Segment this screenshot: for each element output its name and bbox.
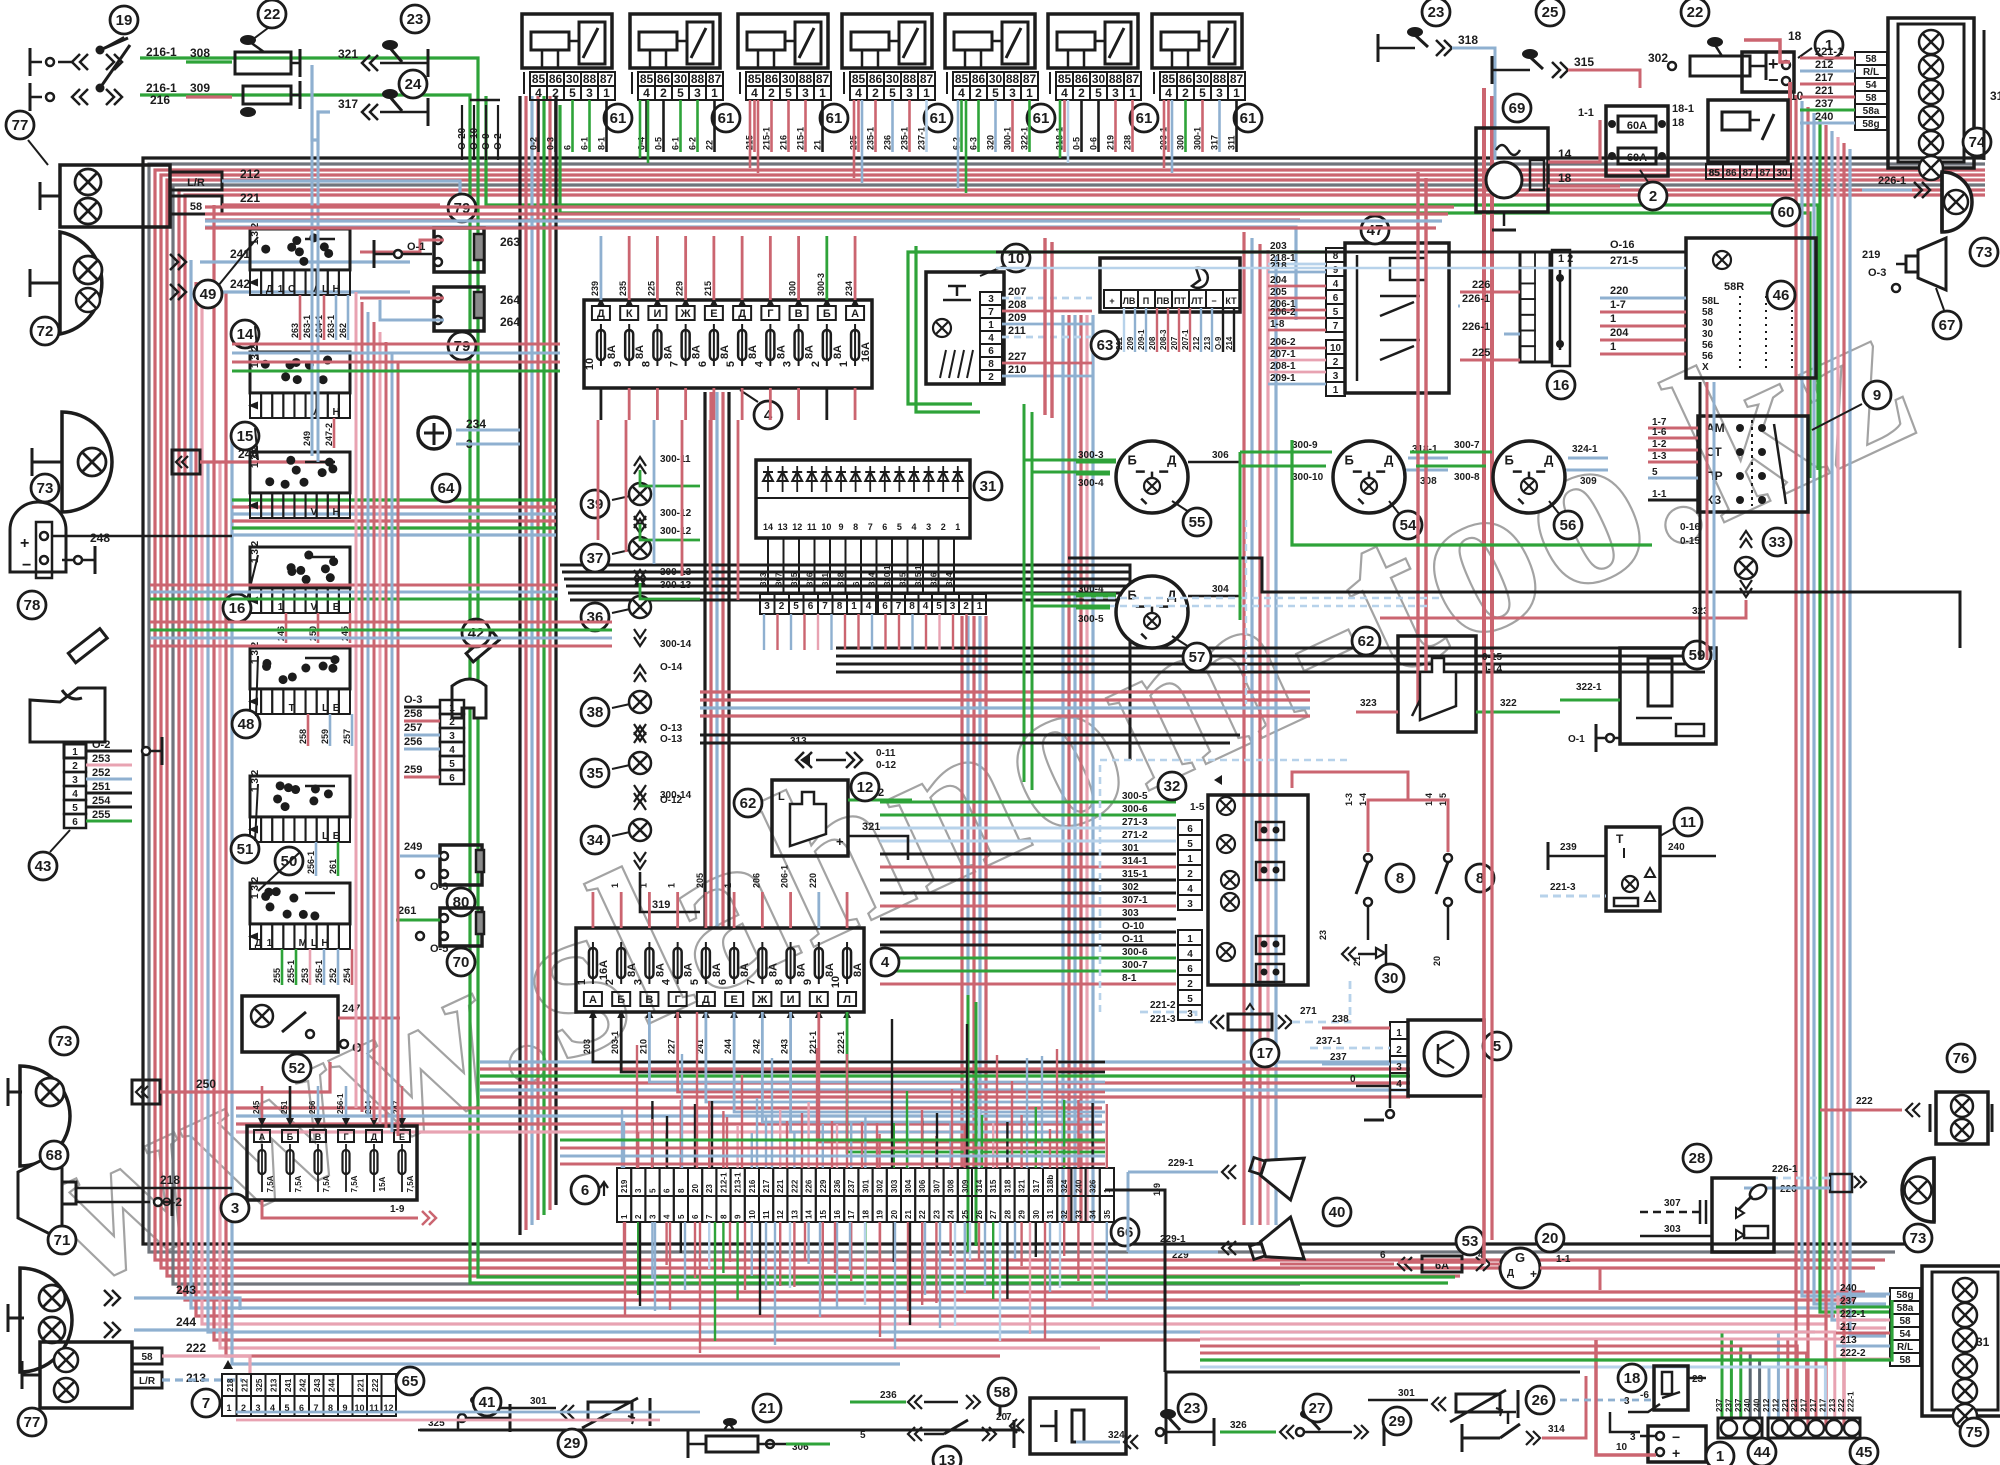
svg-text:58: 58 <box>1865 93 1877 104</box>
svg-text:10: 10 <box>584 358 596 370</box>
svg-text:302: 302 <box>876 1179 885 1193</box>
svg-text:322: 322 <box>1500 698 1517 709</box>
wire green gauge h1 <box>1024 459 1116 462</box>
wire 318 below diode block <box>845 538 847 594</box>
svg-text:217: 217 <box>1809 1398 1818 1412</box>
svg-text:307: 307 <box>932 1179 941 1193</box>
callout 22 <box>1681 0 1709 26</box>
wire conn6 lower long 2 <box>639 1222 641 1306</box>
svg-text:219: 219 <box>1106 135 1116 150</box>
wire diode strip down 9 <box>871 614 873 650</box>
svg-text:303: 303 <box>890 1179 899 1193</box>
wire 242 blue <box>200 290 410 293</box>
wire 300-5 green <box>1076 607 1110 610</box>
callout 68 <box>40 1141 68 1169</box>
wire conn6 upper long 14 <box>816 1048 818 1168</box>
svg-text:255-1: 255-1 <box>286 960 296 983</box>
callout 17 <box>1251 1039 1279 1067</box>
svg-text:204: 204 <box>1610 327 1629 339</box>
svg-text:3: 3 <box>1630 1432 1636 1443</box>
wire relay drop 5 <box>853 100 856 178</box>
svg-text:6: 6 <box>1187 964 1193 975</box>
wire lmid585 3 <box>150 598 558 601</box>
wire 255-1 below block 50 <box>295 949 298 985</box>
wire connector6 pin 13 up <box>793 1133 795 1168</box>
svg-text:229-1: 229-1 <box>1168 1158 1194 1169</box>
wire top bus ring 4 <box>161 175 1985 1268</box>
wire 242 below fusebox4 bottom <box>762 1012 1105 1122</box>
wire mid bundle C 1 <box>1061 315 1064 1222</box>
svg-text:7: 7 <box>1333 321 1339 332</box>
svg-text:ПВ: ПВ <box>1157 296 1170 306</box>
wire 254 below block 50 <box>351 949 354 985</box>
wire 215 above fusebox4top <box>712 236 715 300</box>
svg-text:240: 240 <box>1840 1283 1857 1294</box>
wire pre-conn6 4 <box>560 1163 1105 1166</box>
svg-text:205: 205 <box>695 873 705 888</box>
wire connector6 pin 22 down <box>921 1222 923 1305</box>
svg-text:46: 46 <box>1773 287 1790 304</box>
svg-text:2: 2 <box>72 761 78 772</box>
svg-text:8A: 8A <box>767 963 779 977</box>
svg-text:21: 21 <box>759 1400 776 1417</box>
svg-text:222: 222 <box>790 1179 799 1193</box>
wire connector6 pin 20 up <box>893 1123 895 1168</box>
fuel tank sender 62 right <box>1398 636 1476 732</box>
svg-text:7: 7 <box>868 522 873 532</box>
svg-text:221-1: 221-1 <box>1815 46 1843 58</box>
svg-text:3: 3 <box>72 775 78 786</box>
wire mid bundle D 5 <box>984 616 987 1168</box>
wire 203 green long <box>908 252 1326 404</box>
wire pink y1420 <box>236 1419 660 1422</box>
callout 8b <box>1466 864 1494 892</box>
wire 203 below fusebox4 bottom <box>593 1012 1105 1062</box>
wire bottom right 13 <box>1200 1332 1835 1418</box>
svg-text:3: 3 <box>694 86 701 100</box>
svg-text:7: 7 <box>745 979 757 985</box>
wire connector6 pin 17 down <box>850 1222 852 1281</box>
svg-text:7: 7 <box>822 601 828 612</box>
wire mid bundle A 6 <box>548 96 551 1210</box>
svg-text:56: 56 <box>1560 517 1577 534</box>
svg-text:87: 87 <box>708 72 722 86</box>
fuse box 4 bottom fuse 1 (16A) <box>584 992 602 1006</box>
svg-text:58: 58 <box>1865 54 1877 65</box>
svg-text:2: 2 <box>660 86 667 100</box>
svg-text:324: 324 <box>945 572 954 586</box>
relay 70 <box>440 908 482 946</box>
wire relay7 pin3 (300-1) <box>1201 100 1204 152</box>
svg-text:Б: Б <box>1128 587 1137 602</box>
svg-text:+: + <box>1672 1445 1680 1461</box>
svg-text:300-6: 300-6 <box>1122 947 1148 958</box>
svg-text:Т: Т <box>289 703 295 714</box>
svg-text:319: 319 <box>652 899 670 911</box>
svg-text:0-3: 0-3 <box>546 137 556 150</box>
wire connector6 pin 12 up <box>779 1109 781 1168</box>
svg-text:−: − <box>1211 296 1216 306</box>
fuse box 3 fuse 3 <box>310 1130 326 1142</box>
svg-text:5: 5 <box>785 86 792 100</box>
wire mid bundle D 1 <box>960 616 963 1168</box>
wire bottom right 11 <box>1200 1360 1816 1418</box>
svg-text:58: 58 <box>994 1384 1011 1401</box>
svg-text:255: 255 <box>272 968 282 983</box>
svg-text:20: 20 <box>996 1412 1008 1423</box>
wire relay1 pin1 (0-2) <box>537 100 540 152</box>
wire relay drop 11 <box>1163 100 1166 168</box>
wire 222-2 to cluster 75 <box>1836 1358 1890 1361</box>
svg-text:Д: Д <box>1167 587 1177 602</box>
svg-text:320-1: 320-1 <box>883 565 892 586</box>
callout 29 left <box>558 1429 586 1457</box>
svg-text:4: 4 <box>751 86 758 100</box>
wire mid bundle C 5 <box>1085 315 1088 1222</box>
callout 71 <box>48 1226 76 1254</box>
wire 252 from handbrake connector <box>86 778 132 781</box>
svg-text:8: 8 <box>774 979 786 985</box>
svg-text:306: 306 <box>918 1179 927 1193</box>
svg-text:324: 324 <box>1060 1179 1069 1193</box>
wire conn6 lower long 17 <box>864 1222 866 1305</box>
wire 243 below fusebox4 bottom <box>791 1012 1105 1132</box>
svg-text:Ж: Ж <box>756 994 767 1006</box>
svg-text:263: 263 <box>500 235 520 249</box>
wire connector6 pin 10 down <box>751 1222 753 1276</box>
wire conn6 upper long 23 <box>951 1089 953 1168</box>
svg-text:217: 217 <box>762 1179 771 1193</box>
headlamp <box>1902 1158 1934 1222</box>
wire connector6 pin 31 down <box>1049 1222 1051 1292</box>
wire connector6 pin 30 up <box>1035 1107 1037 1168</box>
wire right bus 2 <box>1802 101 1886 1296</box>
wire relay4 pin5 (237-1) <box>925 100 928 152</box>
svg-text:2: 2 <box>552 86 559 100</box>
wire 320-1 below diode block <box>891 538 893 594</box>
svg-text:Д: Д <box>1507 1268 1514 1279</box>
pin labels <box>1855 52 1887 65</box>
diode 13 in block 31 <box>778 472 788 481</box>
relay 61 pin strip <box>530 72 547 86</box>
gauge 54 <box>1333 441 1405 513</box>
svg-text:5: 5 <box>897 522 902 532</box>
svg-text:32: 32 <box>1060 1210 1069 1219</box>
svg-text:20: 20 <box>890 1210 899 1219</box>
wire 1-9 from fuse box 3 <box>262 1200 418 1218</box>
wire right bus 8 <box>1838 137 1886 1328</box>
wire diode strip down 7 <box>844 614 846 650</box>
svg-text:2: 2 <box>768 86 775 100</box>
wire right bus 7 <box>1832 131 1886 1320</box>
terminal top left 1 <box>46 58 54 66</box>
wire 23 relay18 <box>1688 1377 1706 1380</box>
connector 16 right <box>1520 252 1550 362</box>
callout 59 <box>1683 641 1711 669</box>
svg-text:309: 309 <box>1580 476 1597 487</box>
svg-text:29: 29 <box>1018 1210 1027 1219</box>
wire right bus 4 <box>1814 113 1886 1304</box>
svg-text:5: 5 <box>1333 307 1339 318</box>
wire 300-5 to washer block 32 <box>880 801 1176 804</box>
wire conn6 upper long 29 <box>1041 1056 1043 1168</box>
pin labels <box>980 292 1002 305</box>
wire 226-1b <box>1504 333 1520 336</box>
svg-text:−: − <box>1672 1429 1680 1445</box>
svg-text:311: 311 <box>821 573 830 586</box>
svg-text:300: 300 <box>788 281 798 296</box>
wire 227 below fusebox4 bottom <box>678 1012 1105 1092</box>
fuse box 4 bottom fuse 3 (8A) <box>640 992 658 1006</box>
wire lower mid 5 <box>480 1088 1410 1091</box>
svg-text:6: 6 <box>1187 824 1193 835</box>
wire 247-2 below block 14 <box>333 418 336 448</box>
callout 62 right <box>1352 627 1380 655</box>
wire bottom right 9 <box>1200 1346 1797 1418</box>
wire 210 below fusebox4 bottom <box>649 1012 1105 1082</box>
wire 221-2 blue <box>1140 1012 1210 1022</box>
svg-text:37: 37 <box>587 550 604 567</box>
svg-text:25: 25 <box>961 1210 970 1219</box>
wire 213 blue <box>162 1378 242 1381</box>
callout 73 right <box>1904 1224 1932 1252</box>
hazard block 63 <box>1100 258 1240 312</box>
svg-text:1: 1 <box>711 86 718 100</box>
svg-text:263-1: 263-1 <box>326 315 336 338</box>
wire 234 above fusebox4top <box>854 236 857 300</box>
svg-text:87: 87 <box>600 72 614 86</box>
svg-text:55: 55 <box>1189 514 1206 531</box>
svg-text:+: + <box>20 535 29 552</box>
svg-text:264: 264 <box>500 315 520 329</box>
connector 64 <box>418 417 450 449</box>
svg-text:O-20: O-20 <box>457 127 468 150</box>
svg-text:0-6: 0-6 <box>1089 137 1099 150</box>
generator 20 <box>1500 1248 1540 1288</box>
svg-text:235-1: 235-1 <box>866 127 876 150</box>
wire 237 to cluster 75 <box>1836 1306 1890 1309</box>
svg-text:3: 3 <box>632 979 644 985</box>
callout 61 <box>924 104 952 132</box>
svg-text:Д: Д <box>371 1132 378 1142</box>
wire green pair down b <box>975 1002 978 1246</box>
wire connector6 pin 14 up <box>807 1102 809 1168</box>
svg-text:213-1: 213-1 <box>734 1172 743 1193</box>
alternator 69 <box>1476 128 1548 212</box>
wire connector6 pin 23 up <box>935 1136 937 1168</box>
svg-text:3: 3 <box>1333 371 1339 382</box>
fog switch 29 left <box>560 1405 574 1419</box>
wire leftmid v7 <box>391 352 394 1132</box>
diode 5 in block 31 <box>894 472 904 481</box>
wire battery feed 2 <box>1490 96 1494 652</box>
wire relay drop 4 <box>757 100 760 173</box>
svg-text:303: 303 <box>1122 908 1139 919</box>
pin labels <box>1178 930 1202 945</box>
svg-text:8A: 8A <box>711 963 723 977</box>
wire mid cross 4 <box>232 519 556 522</box>
svg-text:72: 72 <box>37 323 54 340</box>
svg-text:242: 242 <box>751 1039 761 1054</box>
wire 207 from switch 10 <box>1002 297 1092 300</box>
svg-text:216: 216 <box>748 1179 757 1193</box>
svg-text:262: 262 <box>338 323 348 338</box>
wire leftmid v8 <box>397 362 400 1136</box>
svg-text:8-1: 8-1 <box>1122 973 1137 984</box>
callout 53 <box>1456 1227 1484 1255</box>
wire 4 <box>1490 1263 1500 1266</box>
svg-text:237: 237 <box>1715 1398 1724 1412</box>
wire conn6 lower long 20 <box>909 1222 911 1325</box>
connector 43 pins <box>64 744 86 758</box>
svg-text:7,5A: 7,5A <box>266 1175 275 1192</box>
horn 68 <box>18 1150 62 1240</box>
headlamp block 77 bottom <box>40 1342 132 1408</box>
svg-text:217: 217 <box>1800 1398 1809 1412</box>
callout 39 <box>581 490 609 518</box>
svg-text:9: 9 <box>838 522 843 532</box>
wire 324-1 <box>1568 457 1608 460</box>
svg-text:226-1: 226-1 <box>1462 321 1490 333</box>
wire relay drop 3 <box>749 100 752 168</box>
wire 315 <box>1568 70 1640 88</box>
callout 58 <box>988 1378 1016 1406</box>
svg-text:3: 3 <box>926 522 931 532</box>
svg-text:86: 86 <box>549 72 563 86</box>
svg-text:2: 2 <box>810 361 822 367</box>
wire 255 from handbrake connector <box>86 820 132 823</box>
wire O-11 to washer block 32 <box>880 944 1176 947</box>
wire 307 below diode block <box>783 538 785 594</box>
wire 263-1 below block 49 <box>335 295 338 340</box>
svg-text:1: 1 <box>1187 934 1193 945</box>
wire green gauge h2 <box>1032 471 1110 474</box>
svg-text:G: G <box>1515 1250 1525 1265</box>
callout 61 <box>1027 104 1055 132</box>
wire conn6 lower long 26 <box>999 1222 1001 1341</box>
svg-text:263: 263 <box>290 323 300 338</box>
svg-text:1-7: 1-7 <box>1610 299 1626 311</box>
wire connector6 pin 2 down <box>637 1222 639 1295</box>
svg-text:1-2: 1-2 <box>1652 439 1667 450</box>
svg-text:26: 26 <box>975 1210 984 1219</box>
pin labels <box>1326 248 1345 262</box>
wire 235 above fusebox4top <box>628 236 631 300</box>
wire diode strip down 10 <box>884 614 886 650</box>
wire mid bundle B 2 <box>709 392 712 928</box>
lamp 73 top right <box>1942 172 1972 232</box>
wire relay6 pin4 (219) <box>1114 100 1117 152</box>
svg-text:207: 207 <box>1008 286 1026 298</box>
wire 301a <box>500 1407 556 1410</box>
callout 80 <box>447 888 475 916</box>
svg-text:313: 313 <box>759 572 768 586</box>
callout 61 <box>712 104 740 132</box>
svg-text:А: А <box>851 308 859 320</box>
svg-text:30: 30 <box>1196 72 1210 86</box>
wire 325 stub <box>418 1420 458 1430</box>
svg-text:12: 12 <box>792 522 802 532</box>
callout 64 <box>432 474 460 502</box>
callout 61 <box>604 104 632 132</box>
wire green gauge h3 <box>1024 593 1116 596</box>
svg-text:73: 73 <box>56 1033 73 1050</box>
wire connector6 pin 8 up <box>722 1111 724 1168</box>
callout 41 <box>473 1388 501 1416</box>
svg-text:20: 20 <box>1432 956 1442 966</box>
svg-text:Д: Д <box>266 284 273 295</box>
svg-text:Д: Д <box>1544 452 1554 467</box>
wire 206-2 into relay block 47 <box>1268 317 1326 320</box>
diode 8 in block 31 <box>851 472 861 481</box>
wire relay drop 2 <box>647 100 650 163</box>
wire mid cross 3 <box>232 512 556 515</box>
svg-text:16A: 16A <box>598 960 610 980</box>
wire 1-4 <box>1447 812 1450 852</box>
relay 61 box <box>842 14 932 68</box>
svg-text:П: П <box>1143 296 1149 306</box>
wire connector6 pin 33 down <box>1077 1222 1079 1281</box>
wire conn6 upper long 7 <box>711 1101 713 1168</box>
wire conn6 lower long 30 <box>1059 1222 1061 1288</box>
svg-text:1: 1 <box>1396 1028 1402 1039</box>
wire 301 to washer block 32 <box>880 853 1176 856</box>
svg-text:28: 28 <box>1689 1150 1706 1167</box>
callout 25 <box>1536 0 1564 26</box>
wire black loop 1 <box>560 565 1130 760</box>
pin labels <box>1390 1022 1408 1039</box>
svg-text:58: 58 <box>141 1352 153 1363</box>
diode 11 in block 31 <box>807 472 817 481</box>
switch 23 bottom <box>1156 1428 1164 1436</box>
svg-text:19: 19 <box>876 1210 885 1219</box>
svg-text:86: 86 <box>1075 72 1089 86</box>
svg-text:215-1: 215-1 <box>762 127 772 150</box>
svg-text:15: 15 <box>237 428 254 445</box>
svg-text:24: 24 <box>947 1210 956 1219</box>
callout 79 <box>448 332 476 360</box>
wire relay1 pin3 (6) <box>571 100 574 152</box>
wire leftmid v3 <box>367 312 370 1116</box>
callout 35 <box>581 759 609 787</box>
wire 258 from connector 42 <box>404 720 440 723</box>
wire 300-4 green <box>1076 473 1110 476</box>
svg-text:48: 48 <box>238 716 255 733</box>
switch 19b <box>72 89 88 105</box>
svg-text:85: 85 <box>1708 168 1720 179</box>
wire relay1 pin2 (0-3) <box>554 100 557 152</box>
wire connector6 pin 24 down <box>949 1222 951 1256</box>
svg-text:73: 73 <box>1910 1230 1927 1247</box>
svg-text:58: 58 <box>190 201 202 213</box>
svg-text:318: 318 <box>1003 1179 1012 1193</box>
diode 7 in block 31 <box>865 472 875 481</box>
svg-text:4: 4 <box>1333 279 1339 290</box>
svg-text:1 3 2: 1 3 2 <box>250 345 261 368</box>
beam lamp 78 <box>10 502 66 572</box>
wire connector6 pin 26 up <box>978 1109 980 1168</box>
fuse box 4 top fuse 4 (8A) <box>677 306 695 320</box>
wire stub tl2 <box>30 96 42 99</box>
wire diode strip down 11 <box>898 614 900 650</box>
svg-text:−: − <box>22 557 31 574</box>
svg-text:L: L <box>322 703 328 714</box>
lamp cluster <box>1922 1266 2000 1416</box>
terminal O-3b <box>416 870 424 878</box>
svg-text:7,5A: 7,5A <box>294 1175 303 1192</box>
svg-text:85: 85 <box>852 72 866 86</box>
svg-text:321: 321 <box>1018 1179 1027 1193</box>
